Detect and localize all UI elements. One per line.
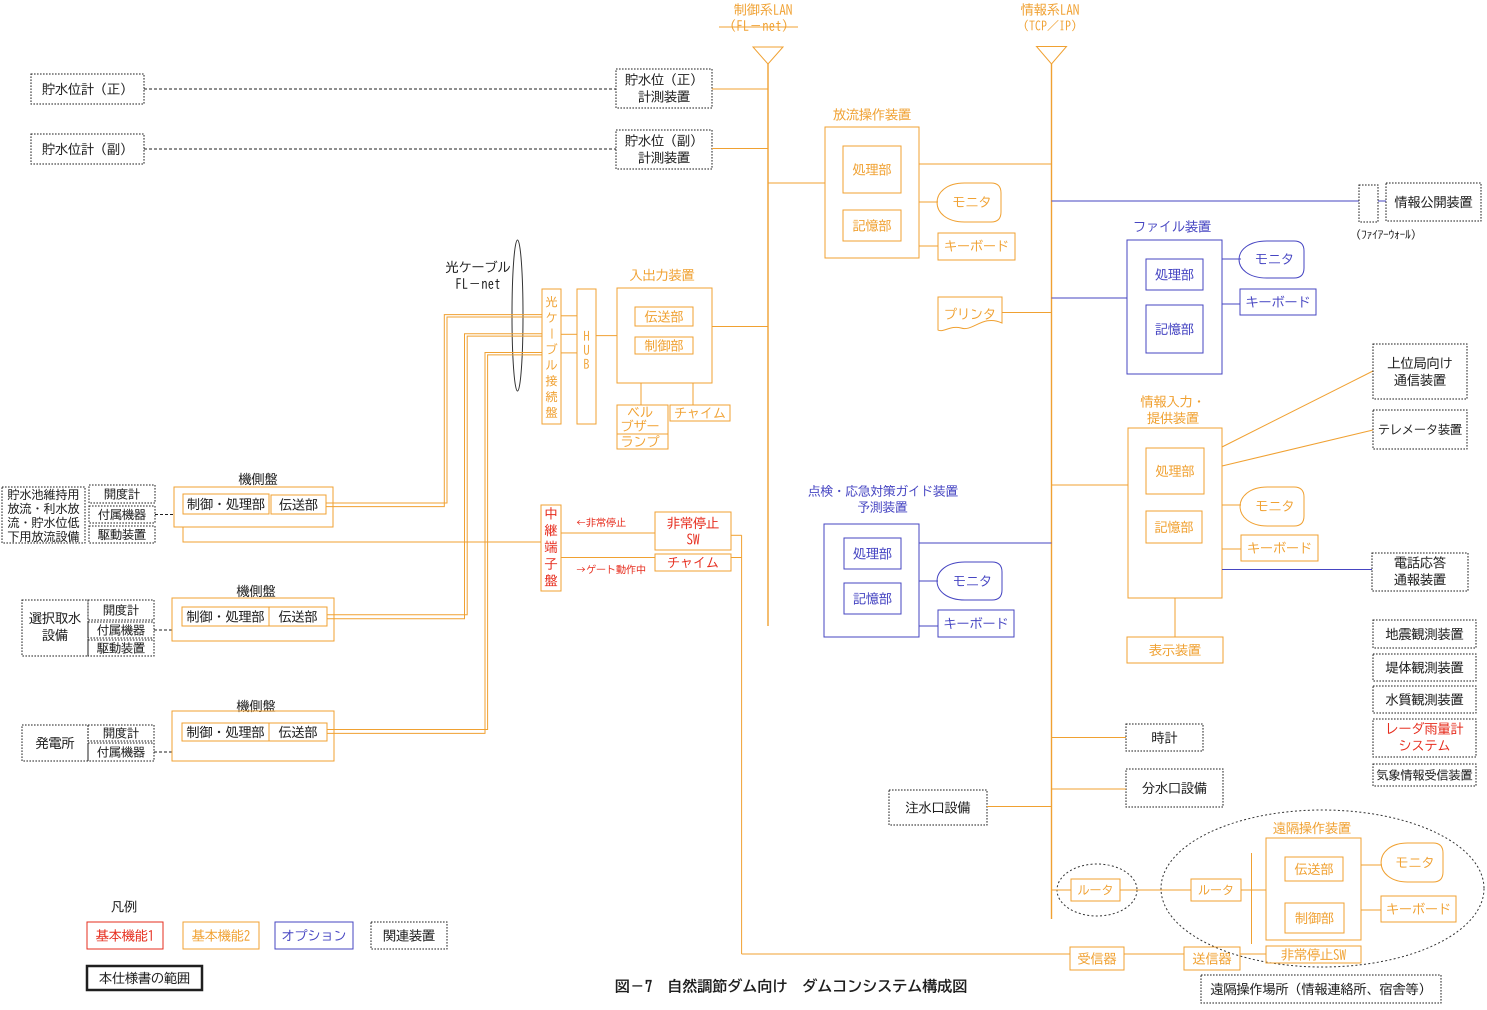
shape モニタ (ファイル装置)	[1239, 241, 1304, 278]
box 中継端子盤	[541, 505, 561, 591]
wire pair3 inner	[327, 355, 542, 730]
wire to キーボード (放流操作装置)	[919, 245, 938, 247]
shape モニタ (点検)	[937, 562, 1002, 600]
wire ルータ to 遠隔操作装置	[1241, 889, 1266, 891]
box 付属機器 3	[88, 743, 154, 761]
box 付属機器 2	[88, 622, 154, 638]
box 電話応答通報装置	[1372, 553, 1468, 591]
wire to モニタ (情報入力)	[1222, 504, 1241, 506]
legend 関連装置	[371, 922, 447, 949]
unit 入出力装置	[630, 269, 694, 281]
box 貯水池維持用放流・利水放流・貯水位低下用放流設備	[2, 487, 85, 543]
box 制御部 (入出力装置)	[635, 337, 693, 354]
wire 非常停止SW to riser	[731, 534, 742, 536]
net 制御系LAN label	[734, 3, 792, 15]
wire emergency to 受信器	[742, 953, 1070, 955]
label ←非常停止	[577, 518, 626, 528]
wire to キーボード (遠隔)	[1361, 909, 1381, 911]
box 時計	[1126, 724, 1203, 751]
box 光ケーブル接続盤	[542, 289, 561, 424]
wire 情報系LAN to ファイル装置	[1052, 297, 1128, 299]
label →ゲート動作中	[577, 565, 645, 575]
wire 点検 to 情報系LAN	[919, 542, 1052, 544]
legend 基本機能1	[87, 922, 163, 949]
unit 遠隔操作装置	[1273, 822, 1350, 834]
box 表示装置	[1127, 637, 1223, 663]
shape プリンタ	[938, 297, 1002, 331]
制御系LAN drop symbol (triangle)	[753, 47, 783, 64]
box 制御・処理部 1	[183, 494, 269, 514]
unit 点検・応急対策ガイド装置 予測装置	[808, 485, 957, 497]
box 選択取水設備	[22, 600, 88, 656]
wire 入出力装置 to ベル	[640, 383, 642, 405]
wire to キーボード (点検)	[919, 625, 938, 627]
box 注水口設備	[889, 790, 987, 825]
wire 貯水位計(正)-計測装置 dotted	[144, 88, 616, 90]
box 処理部 (点検)	[844, 538, 901, 569]
box 開度計 2	[88, 600, 154, 620]
wire ルータ-ルータ	[1120, 889, 1191, 891]
label 凡例	[111, 900, 136, 912]
box ファイアーウォール	[1359, 185, 1378, 222]
unit ファイル装置	[1135, 220, 1211, 232]
box 水質観測装置	[1373, 686, 1476, 713]
box 貯水位（正）計測装置	[616, 69, 712, 108]
box チャイム (中継端子盤)	[655, 554, 731, 571]
wire emergency riser down	[741, 535, 743, 954]
box 制御部 (遠隔)	[1285, 903, 1344, 933]
wire 入出力装置 to チャイム	[692, 383, 694, 405]
legend 本仕様書の範囲	[87, 966, 202, 990]
wire pair3 機側盤3-接続盤 outer	[327, 353, 542, 734]
wire 時計 to 情報系LAN	[1052, 737, 1127, 739]
box 制御・処理部 3	[182, 723, 269, 741]
wire 中継端子盤-非常停止SW	[561, 532, 655, 534]
wire 放流操作装置 to 情報系LAN	[919, 163, 1052, 165]
wire 分水口設備 to 情報系LAN	[1052, 788, 1127, 790]
box 駆動装置 1	[89, 526, 155, 543]
box HUB	[577, 289, 596, 424]
box 貯水位計（副）	[31, 134, 144, 164]
box ルータ left	[1071, 879, 1120, 901]
box レーダ雨量計システム	[1373, 719, 1476, 757]
wire 注水口設備 to 情報系LAN	[987, 806, 1052, 808]
wire ファイアーウォール to 情報公開装置	[1378, 200, 1386, 202]
wire pair1 inner	[326, 317, 542, 503]
wire 接続盤-HUB 3	[561, 352, 577, 354]
box 処理部 (ファイル装置)	[1146, 259, 1203, 290]
box キーボード (情報入力)	[1241, 535, 1318, 561]
box チャイム (入出力装置)	[670, 405, 730, 421]
net 情報系LAN label	[1021, 3, 1079, 15]
box 開度計 1	[89, 485, 155, 503]
wire 付属機器1-機側盤1 dotted	[155, 514, 174, 516]
box 非常停止SW (遠隔)	[1266, 946, 1361, 963]
wire 付属機器2-機側盤2 dotted	[154, 629, 172, 631]
wire 中継端子盤-チャイム	[561, 557, 655, 559]
wire pair2 inner	[327, 336, 542, 615]
box 発電所	[22, 725, 88, 761]
wire 計測装置(副) to 制御系LAN	[712, 148, 768, 150]
box 非常停止SW	[655, 512, 731, 550]
wire 送信器-非常停止SW	[1240, 953, 1266, 955]
box 記憶部 (放流操作装置)	[843, 210, 901, 241]
box 上位局向け通信装置	[1373, 344, 1467, 399]
wire 情報系LAN to ルータ	[1052, 889, 1072, 891]
wire 情報入力 to 表示装置	[1174, 598, 1176, 637]
legend オプション	[275, 922, 353, 949]
annotation ellipse 光ケーブル	[512, 240, 523, 391]
box 処理部 (放流操作装置)	[843, 146, 901, 193]
box 地震観測装置	[1373, 620, 1476, 648]
box 制御・処理部 2	[182, 607, 269, 626]
shape モニタ (放流操作装置)	[937, 183, 1001, 222]
box 付属機器 1	[89, 506, 155, 523]
box 伝送部 2	[269, 607, 327, 626]
unit 機側盤 2	[237, 585, 276, 597]
label （ファイアーウォール）	[1357, 229, 1414, 239]
wire 接続盤-HUB 1	[561, 315, 577, 317]
title 図－7 自然調節ダム向け ダムコンシステム構成図	[616, 978, 966, 993]
wire 計測装置(正) to 制御系LAN	[712, 88, 768, 90]
box 伝送部 (遠隔)	[1285, 857, 1343, 881]
wire to キーボード (情報入力)	[1222, 548, 1241, 550]
box 送信器	[1184, 947, 1240, 970]
wire プリンタ to 情報系LAN	[1002, 312, 1052, 314]
box 駆動装置 2	[88, 640, 154, 656]
box キーボード (遠隔)	[1381, 896, 1456, 922]
wire 受信器-送信器	[1124, 953, 1184, 955]
wire HUB-入出力装置	[596, 335, 617, 337]
box 気象情報受信装置	[1373, 764, 1476, 786]
box テレメータ装置	[1373, 410, 1467, 449]
box 伝送部 3	[269, 723, 327, 741]
wire pair2 機側盤2-接続盤 outer	[327, 334, 542, 619]
unit 機側盤 3	[237, 700, 276, 712]
shape モニタ (遠隔)	[1381, 843, 1443, 882]
strikethrough on (FL-net)	[719, 26, 798, 28]
box 情報公開装置	[1386, 183, 1481, 221]
box キーボード (放流操作装置)	[938, 233, 1015, 260]
box 開度計 3	[88, 725, 154, 741]
box 記憶部 (ファイル装置)	[1146, 305, 1203, 353]
box ルータ right	[1191, 879, 1241, 901]
wire 制御系LAN to 放流操作装置	[768, 182, 825, 184]
box 堤体観測装置	[1373, 654, 1476, 681]
wire 貯水位計(副)-計測装置 dotted	[144, 148, 616, 150]
shape モニタ (情報入力)	[1240, 487, 1304, 526]
box 伝送部 (入出力装置)	[635, 307, 693, 326]
box 処理部 (情報入力)	[1146, 448, 1204, 494]
legend 基本機能2	[183, 922, 259, 949]
unit 情報入力・提供装置	[1141, 395, 1200, 407]
情報系LAN drop symbol (triangle)	[1037, 47, 1067, 65]
boundary ellipse ルータ	[1057, 864, 1137, 916]
box 受信器	[1070, 947, 1124, 970]
box 貯水位計（正）	[31, 74, 144, 104]
wire チャイム to riser	[731, 557, 742, 559]
wire pair1 機側盤1-接続盤 outer	[326, 315, 542, 507]
wire 制御系LAN bus	[767, 64, 769, 626]
wire 情報入力 to 上位局向け通信装置 diagonal	[1222, 371, 1373, 447]
wire to モニタ (遠隔)	[1361, 864, 1382, 866]
wire 接続盤-HUB 2	[561, 333, 577, 335]
box 伝送部 1	[271, 495, 326, 514]
wire 入出力装置 to 制御系LAN	[712, 326, 768, 328]
label 光ケーブル FL-net	[446, 261, 510, 273]
unit 放流操作装置	[833, 108, 910, 120]
wire 情報入力 to 電話応答通報装置	[1222, 569, 1372, 571]
boundary ellipse 遠隔操作場所	[1161, 810, 1484, 967]
wire to モニタ (放流操作装置)	[919, 201, 938, 203]
wire 情報系LAN to ファイアーウォール	[1052, 200, 1360, 202]
wire 情報入力 to テレメータ装置 diagonal	[1222, 430, 1373, 466]
box 記憶部 (点検)	[844, 583, 901, 614]
wire 付属機器3-機側盤3 dotted	[154, 751, 172, 753]
wire to モニタ (ファイル装置)	[1222, 258, 1241, 260]
box 記憶部 (情報入力)	[1146, 511, 1202, 543]
box キーボード (ファイル装置)	[1240, 289, 1316, 315]
box キーボード (点検)	[938, 610, 1014, 637]
wire 情報系LAN bus	[1051, 64, 1053, 919]
box 分水口設備	[1126, 769, 1223, 807]
unit 機側盤 1	[239, 473, 278, 485]
box ベル・ブザー・ランプ	[617, 405, 668, 449]
wire 情報系LAN to 情報入力・提供装置	[1052, 484, 1129, 486]
box 貯水位（副）計測装置	[616, 130, 712, 169]
box 遠隔操作場所（情報連絡所、宿舎等）	[1201, 975, 1441, 1003]
wire to キーボード (ファイル装置)	[1222, 303, 1240, 305]
wire 機側盤1 to 中継端子盤	[183, 527, 541, 542]
wire vertical segment 遠隔	[1251, 853, 1253, 944]
wire to モニタ (点検)	[919, 580, 938, 582]
